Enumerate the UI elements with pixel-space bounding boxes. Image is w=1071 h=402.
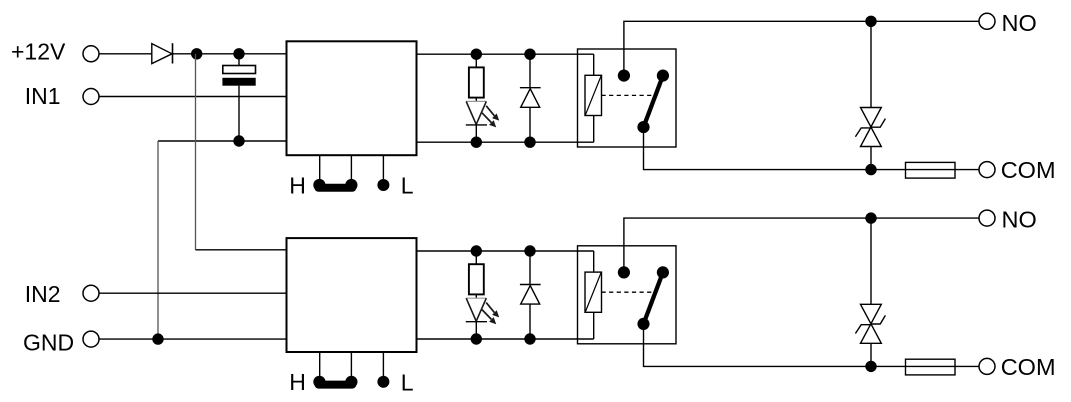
terminal +12V bbox=[83, 46, 99, 62]
LED D1b bbox=[466, 100, 486, 102]
junction NO / TVS bbox=[865, 16, 876, 27]
relay K1 contact NO throw bbox=[657, 70, 669, 82]
junction bottom of LED bbox=[471, 137, 482, 148]
junction capacitor bottom / GND net bbox=[233, 135, 244, 146]
LED D2b bbox=[466, 297, 486, 299]
junction capacitor top bbox=[233, 48, 244, 59]
terminal GND bbox=[83, 331, 99, 347]
wire IN2 to U2 bbox=[99, 292, 287, 294]
junction COM / TVS bbox=[865, 361, 876, 372]
svg-text:IN2: IN2 bbox=[25, 281, 61, 307]
wire U2 pin H1 bbox=[319, 352, 321, 382]
junction +12V branch bbox=[191, 48, 202, 59]
driver block U1 bbox=[287, 41, 417, 155]
relay K1 actuation (dashed) bbox=[602, 94, 657, 96]
svg-text:NO: NO bbox=[1002, 10, 1037, 36]
junction bottom of D2c bbox=[524, 333, 535, 344]
wire U1 pin H2 bbox=[350, 155, 352, 185]
TVS Z1 (bidirectional suppressor) bbox=[861, 108, 882, 128]
jumper J1 L pin bbox=[377, 179, 389, 191]
wire +12V branch to U2 bbox=[196, 249, 287, 251]
terminal COM bbox=[979, 358, 995, 374]
fuse F1 bbox=[906, 162, 956, 178]
wire +12V rail to U1 bbox=[173, 53, 287, 55]
wire COM rail bbox=[644, 324, 980, 367]
wire bottom rail bbox=[417, 141, 594, 143]
terminal COM bbox=[979, 162, 995, 178]
diode D1 (input protection) bbox=[152, 44, 172, 64]
LED D2b arrows bbox=[486, 303, 494, 313]
svg-text:IN1: IN1 bbox=[25, 83, 61, 109]
wire GND to U2 bbox=[99, 338, 287, 340]
terminal NO bbox=[979, 13, 995, 29]
junction top of R1 bbox=[471, 49, 482, 60]
fuse F2 bbox=[906, 359, 956, 375]
terminal NO bbox=[979, 210, 995, 226]
wire TVS branch bbox=[870, 21, 872, 107]
jumper J2 L pin bbox=[377, 376, 389, 388]
junction GND branch bbox=[152, 333, 163, 344]
capacitor C1 bbox=[238, 54, 240, 66]
svg-text:L: L bbox=[401, 370, 414, 396]
wire U2 pin H2 bbox=[350, 352, 352, 382]
svg-text:NO: NO bbox=[1002, 207, 1037, 233]
wire NO rail bbox=[624, 21, 979, 75]
relay K2 actuation (dashed) bbox=[602, 291, 657, 293]
relay K1 body bbox=[578, 49, 677, 147]
resistor R2 bbox=[475, 251, 477, 264]
wire NO rail bbox=[624, 218, 979, 272]
wire +12V to diode bbox=[99, 53, 152, 55]
relay K2 coil bbox=[593, 251, 595, 272]
svg-text:+12V: +12V bbox=[11, 39, 66, 65]
junction COM / TVS bbox=[865, 164, 876, 175]
wire GND net to U1 pin 3 bbox=[158, 140, 287, 142]
LED D1b arrows bbox=[486, 106, 494, 116]
jumper J1 H (installed) bbox=[313, 179, 325, 191]
wire TVS branch bbox=[870, 218, 872, 304]
wire +12V branch vertical (to channel 2) bbox=[195, 54, 197, 250]
relay K2 moving contact bbox=[637, 318, 649, 330]
TVS Z2 (bidirectional suppressor) bbox=[861, 304, 882, 324]
relay K1 coil bbox=[593, 54, 595, 75]
svg-text:COM: COM bbox=[1001, 354, 1056, 380]
relay K2 body bbox=[578, 246, 677, 344]
relay K2 contact NO throw bbox=[657, 266, 669, 278]
svg-text:H: H bbox=[289, 369, 306, 395]
jumper J2 H (installed) bbox=[313, 376, 325, 388]
wire U1 pin H1 bbox=[319, 155, 321, 185]
svg-text:COM: COM bbox=[1001, 157, 1056, 183]
svg-text:H: H bbox=[289, 172, 306, 198]
junction top of D1c bbox=[524, 49, 535, 60]
junction bottom of D1c bbox=[524, 137, 535, 148]
relay K2 contact pole bbox=[618, 266, 630, 278]
relay K1 moving contact bbox=[637, 121, 649, 133]
wire COM rail bbox=[644, 127, 980, 170]
terminal IN2 bbox=[83, 285, 99, 301]
wire GND net vertical (to channel 2 GND) bbox=[157, 141, 159, 339]
diode D2c (flyback) bbox=[529, 251, 531, 285]
junction bottom of LED bbox=[471, 333, 482, 344]
relay K1 contact pole bbox=[618, 70, 630, 82]
wire top rail bbox=[417, 250, 594, 252]
resistor R1 bbox=[475, 54, 477, 67]
wire bottom rail bbox=[417, 338, 594, 340]
diode D1c (flyback) bbox=[529, 54, 531, 87]
svg-text:GND: GND bbox=[23, 330, 74, 356]
driver block U2 bbox=[287, 238, 417, 352]
wire IN1 to U1 bbox=[99, 96, 287, 98]
svg-text:L: L bbox=[401, 173, 414, 199]
wire U2 pin L bbox=[382, 352, 384, 381]
wire top rail bbox=[417, 53, 594, 55]
junction top of D2c bbox=[524, 245, 535, 256]
junction NO / TVS bbox=[865, 212, 876, 223]
wire U1 pin L bbox=[382, 155, 384, 184]
terminal IN1 bbox=[83, 89, 99, 105]
junction top of R2 bbox=[471, 245, 482, 256]
